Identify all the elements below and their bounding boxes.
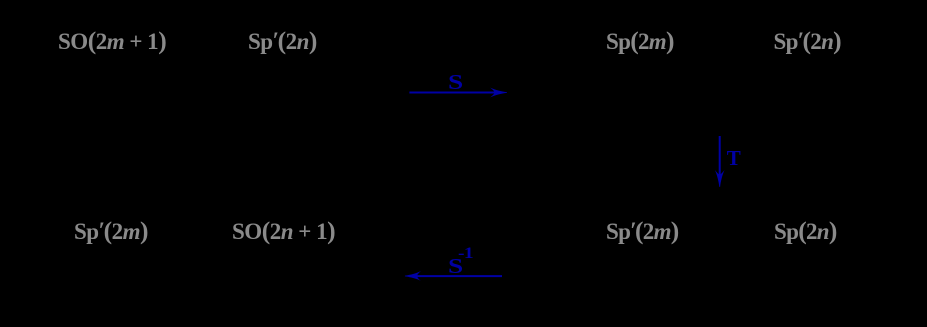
label S^-1 on bottom arrow bbox=[448, 256, 463, 278]
node Sp'(2m) bottom-right-inner bbox=[606, 218, 679, 244]
wire S arrowhead bbox=[490, 88, 507, 98]
node Sp(2m) top-right-inner bbox=[606, 28, 674, 54]
label S on top arrow bbox=[448, 72, 463, 94]
node SO(2m+1) top-left bbox=[58, 28, 166, 54]
node Sp'(2n) top-middle bbox=[248, 28, 317, 54]
label T on vertical arrow bbox=[727, 148, 741, 169]
node Sp(2n) bottom-right-outer bbox=[774, 218, 837, 244]
node Sp'(2m) bottom-left bbox=[74, 218, 148, 244]
node SO(2n+1) bottom-middle bbox=[232, 218, 335, 244]
wire T arrowhead bbox=[715, 170, 725, 187]
wire T arrow shaft bbox=[719, 136, 721, 182]
wire S arrow shaft bbox=[409, 92, 503, 94]
wire S-inverse arrow shaft bbox=[409, 275, 502, 277]
wire S-inverse arrowhead bbox=[405, 271, 421, 281]
node Sp'(2n) top-right-outer bbox=[774, 28, 841, 54]
